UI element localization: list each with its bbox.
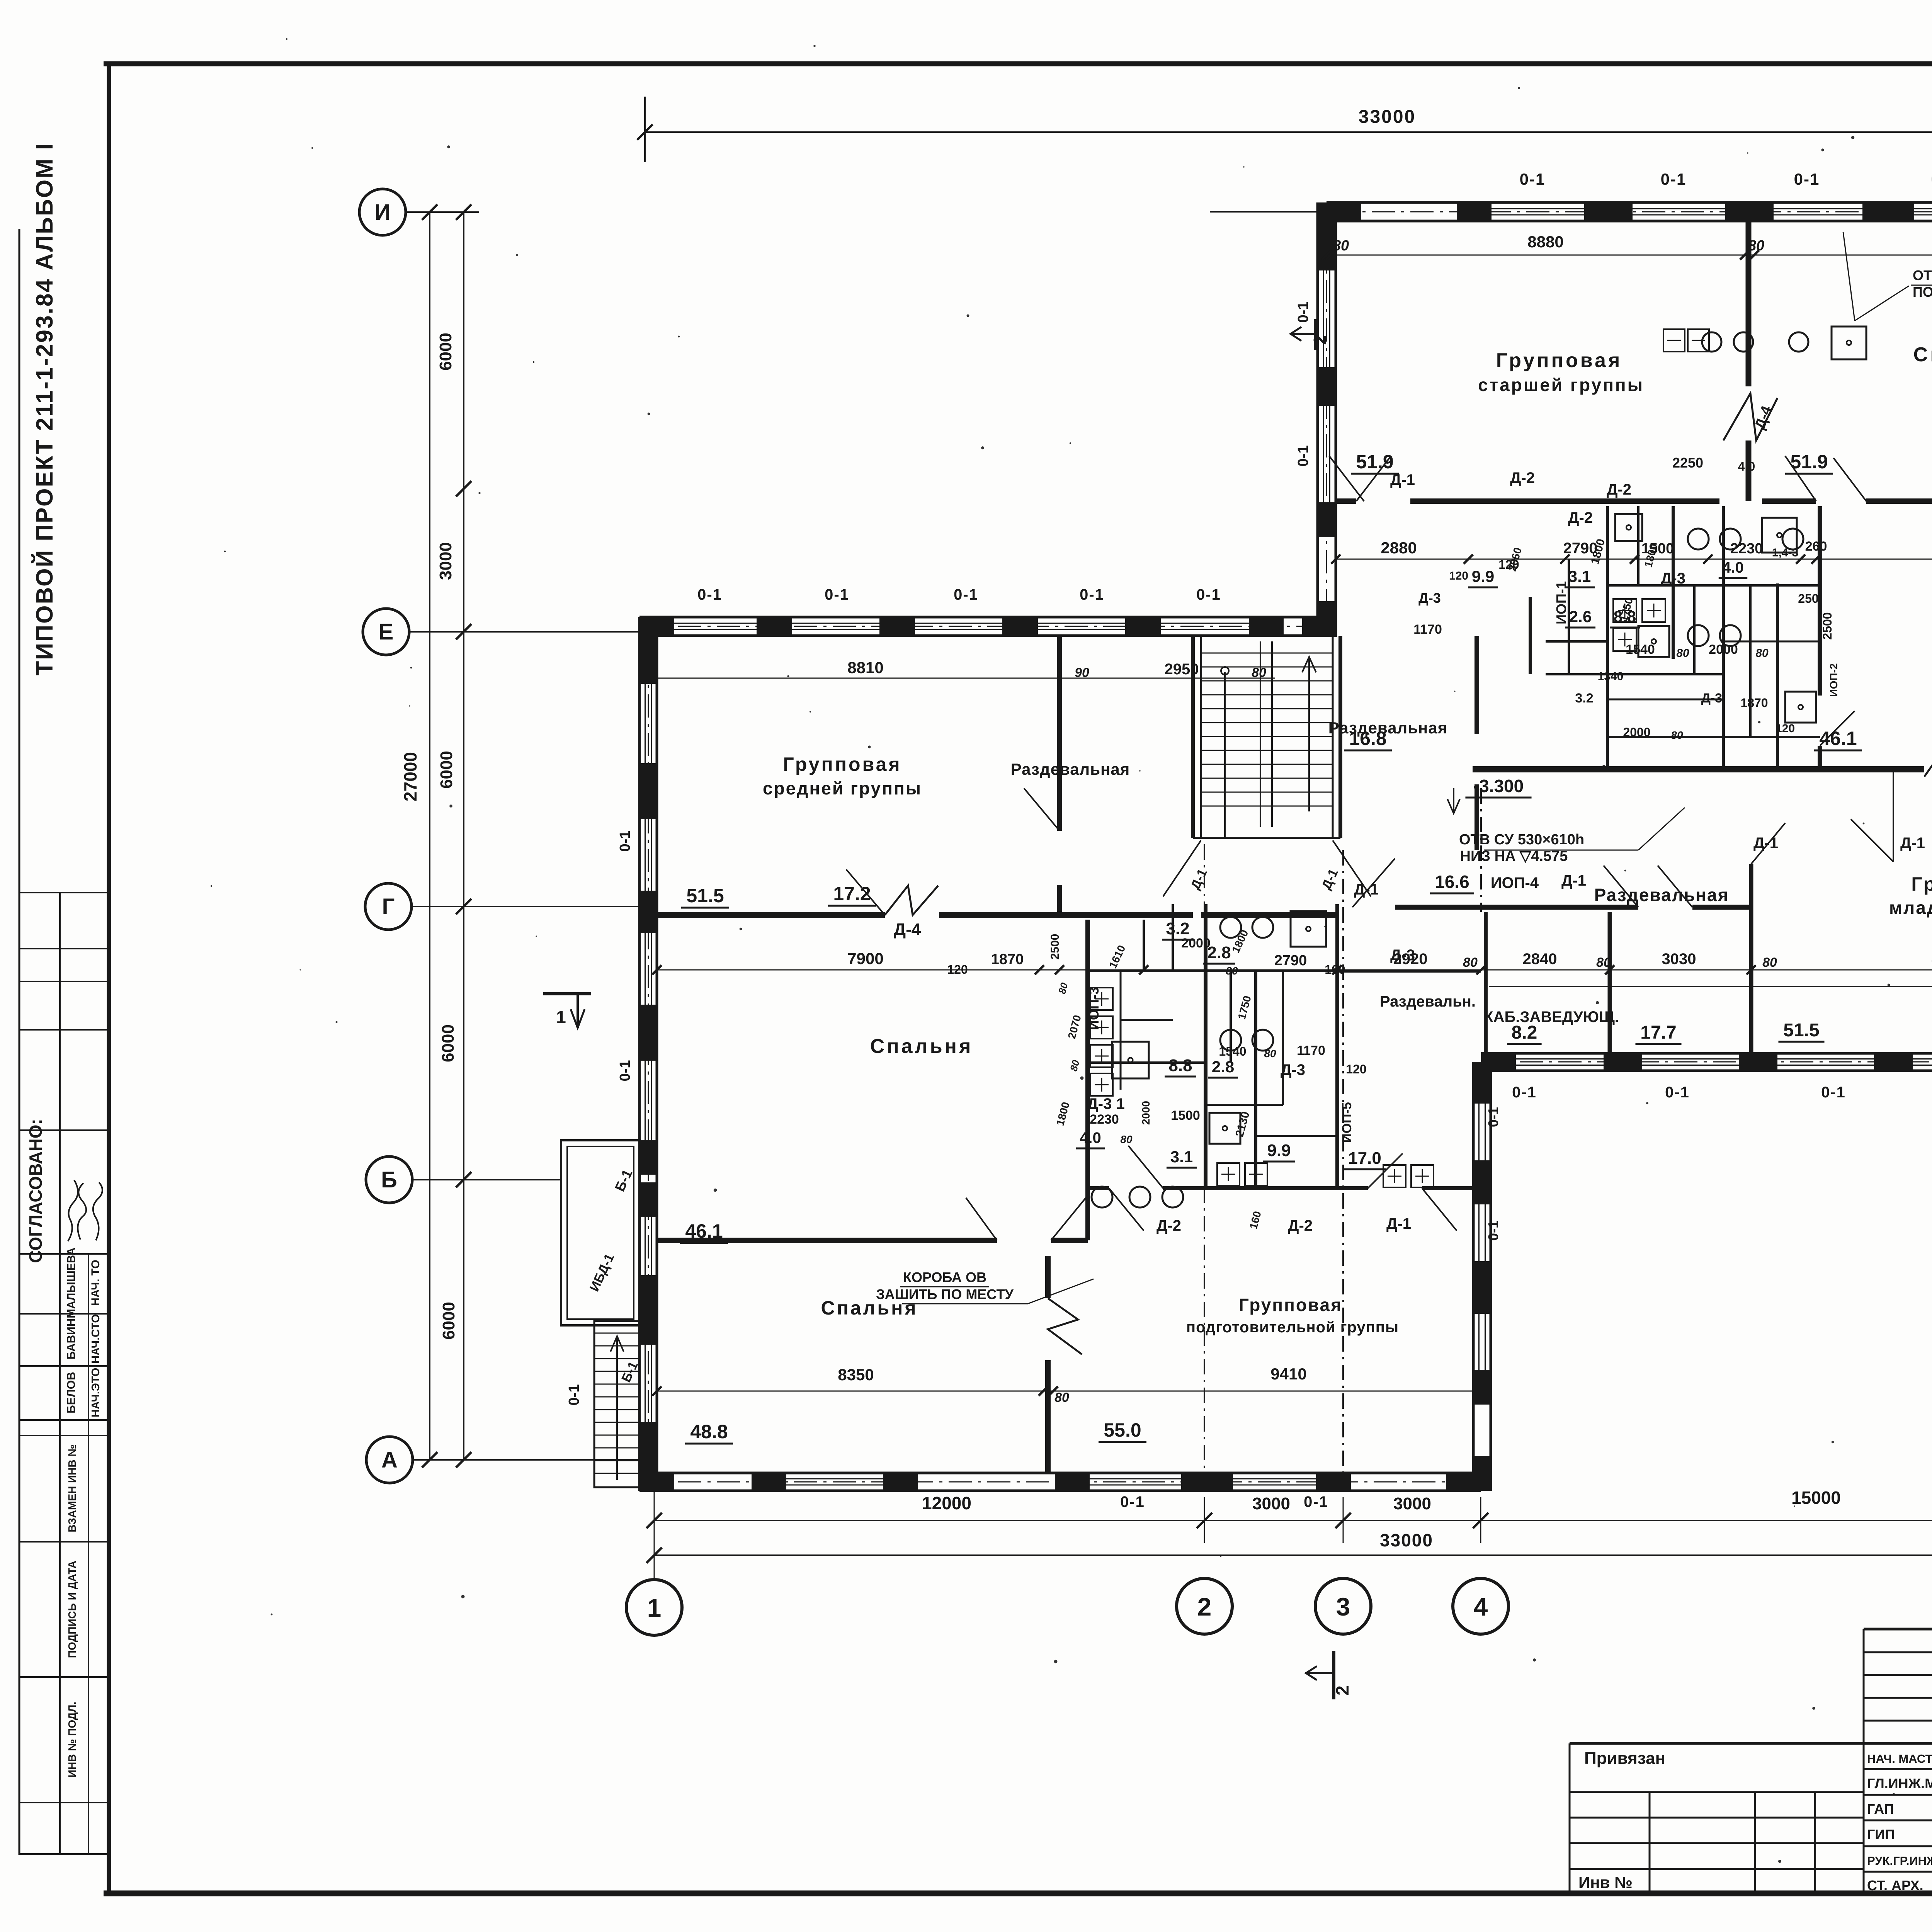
drawing frame border: [104, 61, 1932, 66]
interior wall between групповая старшей and спальня: [1746, 221, 1752, 386]
corridor wall segment above Г middle: [1193, 837, 1340, 839]
svg-text:ИОП-5: ИОП-5: [1340, 1102, 1354, 1143]
svg-text:7900: 7900: [847, 949, 883, 968]
svg-text:1870: 1870: [991, 951, 1024, 968]
svg-text:0-1: 0-1: [1295, 302, 1311, 323]
svg-text:Д-1: Д-1: [1354, 881, 1379, 898]
svg-text:Д-2: Д-2: [1288, 1217, 1313, 1234]
svg-text:ЗАШИТЬ ПО МЕСТУ: ЗАШИТЬ ПО МЕСТУ: [876, 1286, 1014, 1302]
sanitary fixtures upper row near Ж wall: [1702, 332, 1721, 352]
svg-text:2.8: 2.8: [1207, 943, 1231, 962]
svg-text:Б: Б: [381, 1167, 397, 1192]
interior wall axis Д: [1473, 766, 1924, 772]
svg-text:0-1: 0-1: [1661, 170, 1687, 188]
svg-text:0-1: 0-1: [1196, 586, 1221, 603]
svg-text:80: 80: [1226, 965, 1238, 977]
svg-text:РУК.ГР.ИНЖ.: РУК.ГР.ИНЖ.: [1867, 1854, 1932, 1867]
svg-text:2790: 2790: [1274, 952, 1307, 969]
svg-text:Спальня: Спальня: [1913, 344, 1932, 366]
exterior wall axis 1 west side: [638, 617, 641, 1491]
svg-text:ПОДПИСЬ И ДАТА: ПОДПИСЬ И ДАТА: [66, 1561, 78, 1658]
svg-text:1870: 1870: [1740, 696, 1768, 710]
svg-text:1170: 1170: [1297, 1043, 1325, 1058]
svg-text:17.2: 17.2: [833, 883, 871, 905]
svg-text:2840: 2840: [1523, 951, 1557, 968]
svg-text:2920: 2920: [1393, 951, 1428, 968]
top dimension 33000: [645, 131, 1932, 133]
door Д-4 zigzag on Д wall: [1924, 744, 1932, 777]
svg-text:ИОП-3: ИОП-3: [1086, 987, 1102, 1030]
svg-text:ПОД ПОТОЛКОМ: ПОД ПОТОЛКОМ: [1913, 284, 1932, 300]
svg-text:ОТВ СУ 530×610h: ОТВ СУ 530×610h: [1459, 832, 1584, 848]
left margin outer line: [19, 229, 20, 1855]
svg-text:4.0: 4.0: [1722, 559, 1744, 576]
svg-text:46.1: 46.1: [685, 1220, 723, 1242]
svg-text:МАЛЫШЕВА: МАЛЫШЕВА: [65, 1247, 78, 1318]
svg-text:Д-1: Д-1: [1561, 872, 1586, 889]
svg-text:подготовительной группы: подготовительной группы: [1186, 1319, 1399, 1336]
svg-text:СОГЛАСОВАНО:: СОГЛАСОВАНО:: [26, 1119, 46, 1263]
svg-text:80: 80: [1054, 1390, 1069, 1405]
door Д-4 zigzag on Г wall: [885, 886, 938, 915]
svg-text:2: 2: [1197, 1592, 1212, 1621]
svg-text:НАЧ. МАСТ.: НАЧ. МАСТ.: [1867, 1752, 1932, 1765]
svg-text:4: 4: [1474, 1592, 1488, 1621]
svg-text:Д-1: Д-1: [1900, 835, 1925, 852]
svg-text:Е: Е: [379, 619, 394, 645]
svg-text:2500: 2500: [1820, 612, 1834, 639]
svg-text:2000: 2000: [1623, 725, 1650, 739]
svg-text:-3.300: -3.300: [1473, 776, 1524, 796]
dim row left block top 8810 2950: [657, 678, 1275, 679]
dim row И wall 80 8880: [1327, 255, 1932, 256]
svg-text:17.0: 17.0: [1348, 1149, 1381, 1168]
svg-text:ОТВ.ОВ 500×250h: ОТВ.ОВ 500×250h: [1913, 267, 1932, 283]
svg-text:1170: 1170: [1413, 622, 1442, 637]
svg-text:1540: 1540: [1219, 1044, 1246, 1058]
interior wall east of sanitary upper: [1818, 506, 1822, 696]
svg-text:9.9: 9.9: [1267, 1141, 1291, 1160]
svg-text:80: 80: [1120, 1133, 1133, 1145]
svg-text:3000: 3000: [1393, 1494, 1431, 1513]
svg-text:Д-1: Д-1: [1753, 835, 1778, 852]
svg-text:Спальня: Спальня: [870, 1035, 973, 1058]
interior wall между раздевальная и стена towards stairs left block: [1057, 636, 1062, 831]
dim row upper block 2880 2790 1500 2230 260 7900: [1336, 559, 1932, 560]
svg-text:ГИП: ГИП: [1867, 1827, 1895, 1842]
svg-text:120: 120: [1449, 570, 1468, 582]
svg-text:0-1: 0-1: [1304, 1493, 1328, 1510]
svg-text:ИОП-4: ИОП-4: [1491, 874, 1539, 891]
interior wall axis Г right block: [1489, 905, 1638, 910]
svg-text:4.0: 4.0: [1080, 1129, 1101, 1146]
interior wall axis Г middle strip: [1395, 905, 1489, 910]
svg-text:Раздевальная: Раздевальная: [1594, 885, 1729, 905]
svg-text:А: А: [381, 1447, 398, 1473]
svg-text:1: 1: [647, 1594, 662, 1622]
upper-middle раздевальная wall: [1475, 636, 1479, 734]
bottom dimension 33000: [654, 1554, 1932, 1556]
svg-text:120: 120: [1776, 722, 1795, 735]
svg-text:0-1: 0-1: [1485, 1107, 1501, 1127]
svg-text:0-1: 0-1: [1520, 170, 1546, 188]
svg-text:80: 80: [1264, 1048, 1276, 1060]
svg-text:8810: 8810: [847, 658, 883, 677]
svg-text:Д-2: Д-2: [1568, 509, 1593, 526]
axis centerlines inside exterior walls: [1217, 211, 1932, 213]
svg-text:0-1: 0-1: [1821, 1084, 1846, 1101]
svg-text:27000: 27000: [400, 752, 420, 801]
svg-text:2: 2: [1310, 335, 1330, 345]
svg-text:3.1: 3.1: [1568, 567, 1591, 585]
svg-text:Г: Г: [382, 894, 395, 919]
svg-text:3000: 3000: [1252, 1494, 1290, 1513]
svg-text:Д-3 1: Д-3 1: [1087, 1095, 1124, 1112]
svg-text:3030: 3030: [1662, 951, 1696, 968]
svg-text:0-1: 0-1: [1120, 1493, 1145, 1510]
svg-text:2000: 2000: [1709, 642, 1738, 657]
svg-text:33000: 33000: [1359, 107, 1416, 127]
svg-text:48.8: 48.8: [690, 1421, 728, 1442]
doors diagonal lines lower area: [1109, 1188, 1144, 1231]
svg-text:2950: 2950: [1165, 661, 1199, 678]
svg-text:3000: 3000: [436, 542, 455, 580]
svg-text:0-1: 0-1: [617, 1060, 633, 1082]
svg-text:3.1: 3.1: [1170, 1148, 1193, 1166]
svg-text:Раздевальн.: Раздевальн.: [1380, 993, 1476, 1010]
svg-text:Раздевальная: Раздевальная: [1011, 760, 1130, 778]
svg-text:НАЧ. ТО: НАЧ. ТО: [89, 1260, 102, 1306]
left axis stub lines: [406, 211, 479, 213]
axis circles left column: [359, 189, 406, 235]
svg-text:ИНВ № ПОДЛ.: ИНВ № ПОДЛ.: [66, 1702, 78, 1777]
axis circles bottom row: [626, 1580, 682, 1635]
axis И extension line left of block: [1210, 211, 1318, 213]
svg-text:Групповая: Групповая: [1911, 873, 1932, 895]
svg-text:Д-2: Д-2: [1510, 469, 1535, 486]
svg-text:Инв №: Инв №: [1578, 1873, 1633, 1891]
title block grid: [1864, 1628, 1932, 1631]
svg-text:120: 120: [947, 963, 968, 976]
svg-text:80: 80: [1671, 729, 1683, 741]
svg-text:старшей группы: старшей группы: [1478, 375, 1644, 395]
svg-text:Раздевальная: Раздевальная: [1328, 719, 1448, 737]
svg-text:Д-1: Д-1: [1390, 471, 1415, 488]
svg-text:80: 80: [1755, 647, 1769, 660]
svg-text:120: 120: [1346, 1062, 1366, 1076]
svg-text:0-1: 0-1: [1665, 1084, 1690, 1101]
svg-text:17.7: 17.7: [1640, 1022, 1676, 1043]
exterior wall axis А bottom: [639, 1472, 1481, 1475]
svg-text:3.2: 3.2: [1166, 919, 1189, 938]
svg-text:средней группы: средней группы: [763, 778, 922, 798]
svg-text:0-1: 0-1: [1295, 446, 1311, 467]
svg-text:2.8: 2.8: [1212, 1058, 1234, 1076]
svg-text:8880: 8880: [1527, 233, 1563, 251]
svg-text:Д-4: Д-4: [894, 920, 921, 939]
svg-text:8350: 8350: [838, 1366, 874, 1384]
svg-text:Д-3: Д-3: [1701, 691, 1722, 706]
svg-text:Групповая: Групповая: [783, 753, 901, 775]
svg-text:ГАП: ГАП: [1867, 1801, 1894, 1817]
door Д-4 zigzag bottom: [1048, 1298, 1082, 1354]
svg-text:2230: 2230: [1730, 541, 1763, 557]
stair bottom left annex: [594, 1321, 640, 1487]
svg-text:КАБ.ЗАВЕДУЮЩ.: КАБ.ЗАВЕДУЮЩ.: [1484, 1009, 1619, 1026]
left block sanitary west wall: [1085, 920, 1090, 1240]
interior wall axis Ж corridor: [1336, 498, 1356, 504]
upper sanitary partitions: [1606, 506, 1609, 769]
svg-text:0-1: 0-1: [1512, 1084, 1537, 1101]
margin signatures: [68, 1180, 102, 1241]
bottom of спальня 46.1 wall: [657, 1238, 997, 1243]
bottom axis extension lines: [654, 1492, 655, 1579]
dim row left corridor 7900 1870: [657, 969, 1932, 971]
bottom dimension row 12000 3000 3000 15000: [654, 1520, 1932, 1521]
svg-text:ИОП-1: ИОП-1: [1553, 581, 1569, 624]
sanitary fixtures upper cluster: [1688, 529, 1709, 549]
svg-text:6000: 6000: [439, 1024, 457, 1062]
svg-text:2: 2: [1332, 1685, 1352, 1696]
svg-text:80: 80: [1676, 647, 1689, 660]
svg-text:6000: 6000: [437, 751, 456, 789]
svg-text:Д-3: Д-3: [1661, 570, 1685, 587]
section marker 1 left: [543, 992, 591, 995]
svg-text:2250: 2250: [1672, 455, 1703, 471]
svg-text:8.8: 8.8: [1168, 1056, 1192, 1075]
svg-text:1: 1: [556, 1007, 566, 1027]
svg-text:СТ. АРХ.: СТ. АРХ.: [1867, 1878, 1923, 1893]
svg-text:3: 3: [1336, 1592, 1350, 1621]
svg-text:90: 90: [1075, 665, 1089, 680]
svg-text:51.9: 51.9: [1790, 451, 1828, 473]
svg-text:0-1: 0-1: [566, 1384, 582, 1406]
svg-text:2000: 2000: [1181, 936, 1211, 951]
svg-text:260: 260: [1805, 539, 1827, 554]
exterior wall axis 4 lower block east side: [1472, 1062, 1475, 1491]
svg-text:6000: 6000: [436, 333, 455, 371]
wardrobe line right block: [1489, 986, 1932, 987]
svg-text:2880: 2880: [1381, 539, 1417, 557]
svg-text:ВЗАМЕН ИНВ №: ВЗАМЕН ИНВ №: [66, 1444, 78, 1532]
svg-text:15000: 15000: [1791, 1488, 1841, 1508]
svg-text:Привязан: Привязан: [1584, 1749, 1665, 1768]
svg-text:80: 80: [1748, 238, 1764, 254]
svg-text:Групповая: Групповая: [1239, 1295, 1342, 1315]
sanitary fixtures left cluster: [1220, 917, 1241, 938]
interior walls right block south rooms: [1608, 912, 1612, 1053]
interior wall раздевальная право door Д-1: [1893, 769, 1894, 862]
svg-text:2500: 2500: [1049, 934, 1061, 960]
svg-text:1500: 1500: [1171, 1108, 1200, 1123]
svg-text:0-1: 0-1: [1080, 586, 1104, 603]
porch annex west side: [561, 1140, 640, 1325]
svg-text:0-1: 0-1: [954, 586, 978, 603]
svg-text:80: 80: [1252, 665, 1266, 680]
svg-text:51.5: 51.5: [1783, 1020, 1819, 1041]
svg-text:160: 160: [1325, 963, 1345, 976]
exterior wall upper-block west side: [1316, 202, 1319, 636]
svg-text:16.6: 16.6: [1435, 872, 1469, 892]
svg-text:4,0: 4,0: [1738, 459, 1755, 473]
exterior wall axis И with windows 0-1: [1327, 201, 1932, 204]
middle strip walls раздевальн: [1337, 969, 1481, 973]
svg-text:0-1: 0-1: [1485, 1221, 1501, 1241]
svg-text:ГЛ.ИНЖ.М.: ГЛ.ИНЖ.М.: [1867, 1776, 1932, 1791]
svg-text:И: И: [374, 200, 391, 225]
svg-text:3.2: 3.2: [1575, 691, 1593, 706]
dim row bottom 8350 9410: [657, 1391, 1481, 1392]
svg-text:БАВИН: БАВИН: [65, 1318, 78, 1360]
svg-text:ИОП-2: ИОП-2: [1828, 663, 1840, 697]
svg-text:80: 80: [1596, 955, 1611, 970]
svg-text:6000: 6000: [439, 1302, 458, 1340]
svg-text:Д-2: Д-2: [1156, 1217, 1181, 1234]
svg-text:Д-3: Д-3: [1418, 590, 1441, 606]
svg-text:0-1: 0-1: [825, 586, 849, 603]
svg-text:2230: 2230: [1090, 1112, 1119, 1127]
interior wall axis Г left block: [657, 912, 885, 918]
svg-text:51.5: 51.5: [686, 885, 724, 906]
svg-text:9.9: 9.9: [1472, 567, 1494, 585]
left dimension chains: [429, 212, 430, 1460]
margin stamp table: [19, 892, 109, 893]
svg-text:9410: 9410: [1270, 1365, 1306, 1383]
svg-text:Д-3: Д-3: [1281, 1061, 1305, 1078]
svg-text:НАЧ.СТО: НАЧ.СТО: [90, 1314, 102, 1364]
exterior wall axis В bottom of right block: [1481, 1052, 1932, 1055]
wall between спальня 48.8 and групповая подготовительной: [1045, 1256, 1051, 1298]
svg-text:Д-2: Д-2: [1607, 481, 1631, 498]
left sanitary partitions: [1204, 904, 1207, 1188]
svg-text:8.2: 8.2: [1512, 1022, 1537, 1043]
door leaf diagonals: [1329, 456, 1364, 501]
svg-text:0-1: 0-1: [617, 831, 633, 852]
svg-text:1340: 1340: [1598, 670, 1624, 683]
axis dashed lines through plan: [1204, 844, 1205, 1492]
svg-text:2000: 2000: [1140, 1101, 1152, 1125]
svg-text:НАЧ.ЭТО: НАЧ.ЭТО: [90, 1368, 102, 1417]
svg-text:ТИПОВОЙ ПРОЕКТ 211-1-293.: ТИПОВОЙ ПРОЕКТ 211-1-293.84 АЛЬБОМ I: [31, 142, 58, 675]
svg-text:80: 80: [1333, 238, 1349, 254]
svg-text:16.8: 16.8: [1349, 728, 1386, 749]
svg-text:1,4-3: 1,4-3: [1772, 546, 1798, 559]
section marker 2 top: [1314, 319, 1317, 350]
svg-text:80: 80: [1463, 955, 1478, 970]
svg-text:КОРОБА ОВ: КОРОБА ОВ: [903, 1269, 986, 1285]
exterior wall axis Е top of left block: [639, 616, 1337, 619]
svg-text:0-1: 0-1: [1794, 170, 1820, 188]
doors on Ж wall: [1356, 456, 1391, 501]
svg-text:младшей группы: младшей группы: [1889, 898, 1932, 918]
svg-text:80: 80: [1762, 955, 1777, 970]
svg-text:1540: 1540: [1626, 642, 1655, 657]
svg-text:Групповая: Групповая: [1496, 349, 1622, 372]
stair central: [1191, 636, 1195, 838]
svg-text:51.9: 51.9: [1356, 451, 1393, 473]
svg-text:33000: 33000: [1380, 1530, 1433, 1550]
door Д-4 zigzag upper: [1723, 393, 1777, 440]
svg-text:0-1: 0-1: [697, 586, 722, 603]
svg-text:55.0: 55.0: [1104, 1419, 1141, 1441]
section marker 2 bottom: [1332, 1651, 1335, 1699]
svg-text:Д-1: Д-1: [1386, 1215, 1411, 1232]
svg-text:46.1: 46.1: [1819, 728, 1857, 749]
svg-text:250: 250: [1798, 592, 1818, 605]
svg-text:БЕЛОВ: БЕЛОВ: [65, 1372, 78, 1413]
svg-text:12000: 12000: [922, 1493, 971, 1513]
svg-text:2.6: 2.6: [1569, 607, 1592, 626]
